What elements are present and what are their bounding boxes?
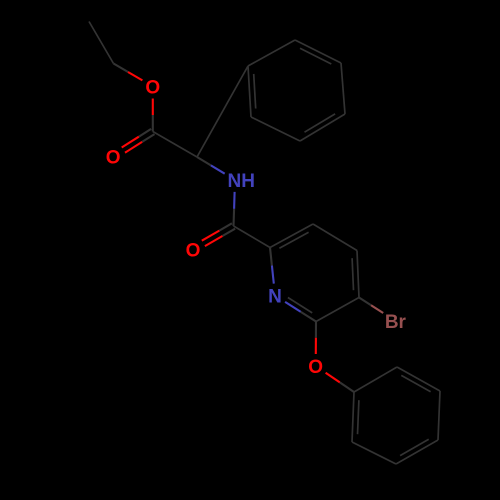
svg-text:Br: Br: [385, 312, 407, 333]
phenyl edge o2-ipso (double): [248, 66, 256, 117]
bond C(=O)-pyridine C2: [234, 226, 271, 248]
bond CHalpha-CH2-phenyl: [197, 66, 248, 157]
svg-text:NH: NH: [227, 171, 254, 192]
bond O-phenyl: [326, 373, 354, 392]
bond C6-O phenoxy: [315, 322, 317, 355]
svg-text:O: O: [308, 357, 323, 378]
phenyl edge p-m2 (double): [300, 114, 345, 141]
bond CHalpha-NH: [197, 157, 225, 174]
double bond C=O ester: [122, 129, 155, 153]
phenyl edge m2-o2: [251, 117, 300, 141]
pyridine edge C5-C6: [316, 298, 359, 322]
phenyl edge ipso-o1: [248, 40, 295, 66]
phenoxy edge m1-p: [438, 391, 440, 440]
pyridine edge N1-C2: [270, 248, 274, 284]
pyridine edge C4-C5 (double): [352, 251, 359, 298]
bond NH-C(=O): [234, 192, 235, 226]
pyridine edge C6-N1 (double): [285, 298, 316, 322]
bond C5-Br: [359, 298, 383, 314]
phenoxy edge o2-ipso (double): [352, 392, 359, 442]
bond O-C(=O) ester: [152, 99, 154, 132]
phenoxy edge o1-m1 (double): [397, 367, 440, 392]
phenoxy edge p-m2 (double): [396, 439, 438, 464]
svg-text:O: O: [145, 78, 160, 99]
bond CH3-CH2 (ethyl): [89, 22, 114, 64]
svg-text:O: O: [106, 148, 121, 169]
phenyl edge o1-m1 (double): [295, 40, 341, 64]
svg-text:O: O: [186, 241, 201, 262]
bond CH2-O ester: [114, 64, 143, 81]
svg-text:N: N: [268, 287, 282, 308]
bond C(=O)-CHalpha: [153, 132, 197, 158]
phenoxy edge ipso-o1: [354, 367, 397, 392]
phenyl edge m1-p: [341, 63, 345, 114]
double bond amide C=O: [202, 223, 235, 246]
pyridine edge C3-C4: [313, 224, 357, 251]
phenoxy edge m2-o2: [352, 442, 396, 464]
pyridine edge C2-C3 (double): [270, 224, 313, 248]
